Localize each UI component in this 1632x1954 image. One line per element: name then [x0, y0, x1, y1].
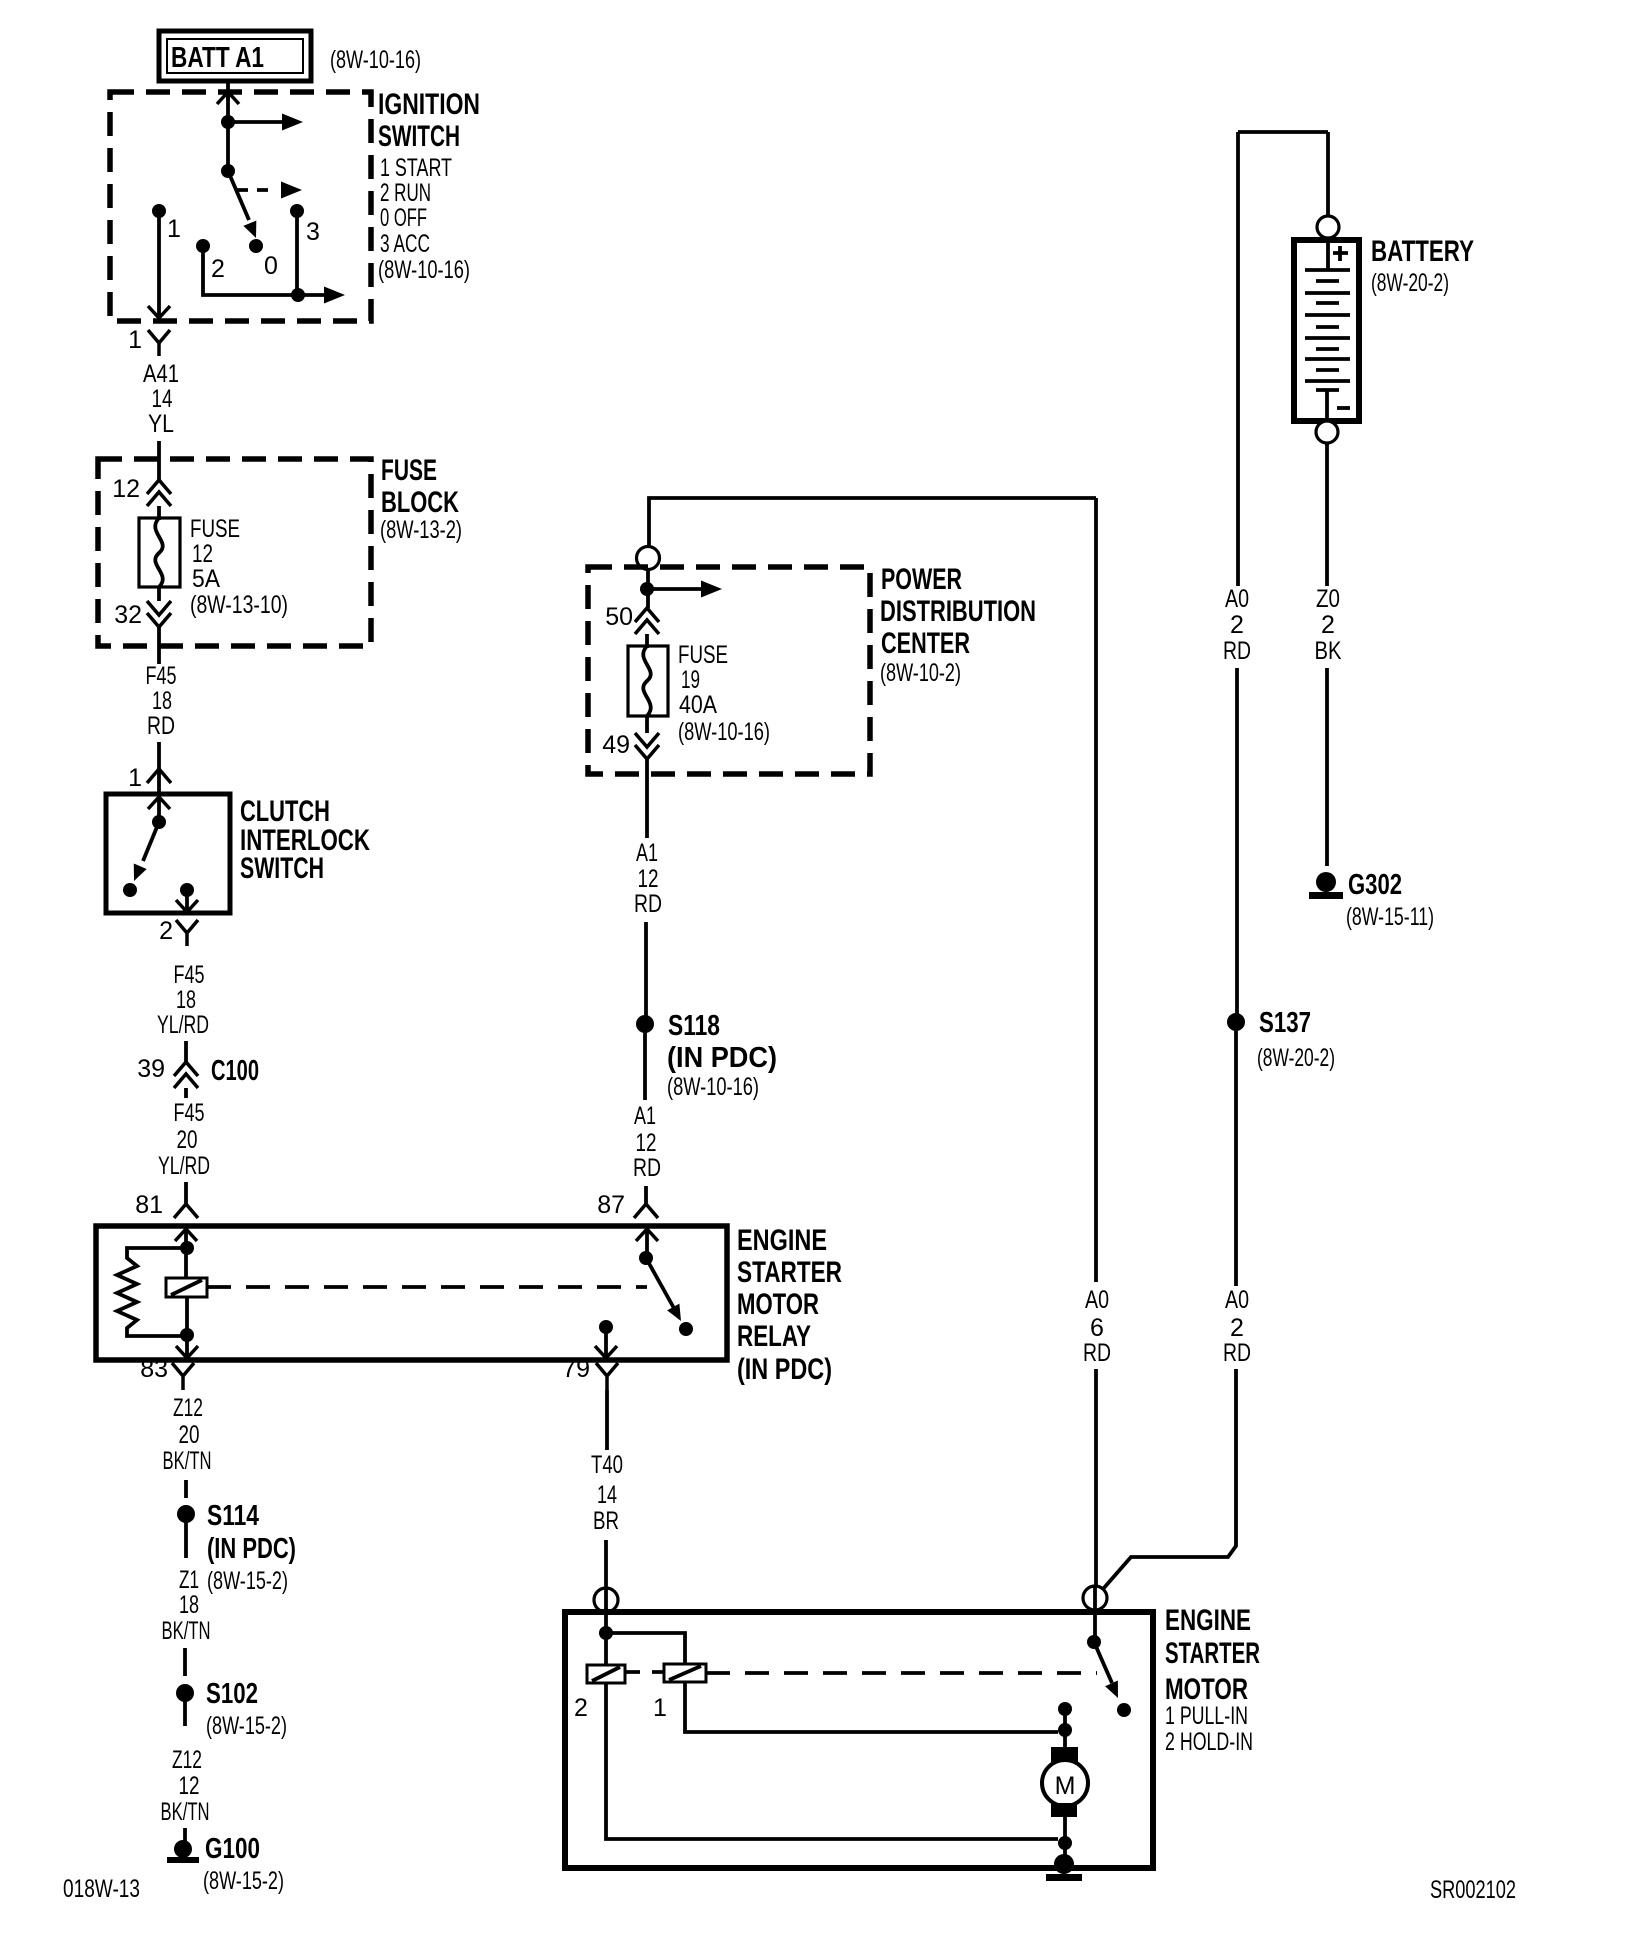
- svg-text:T40: T40: [591, 1451, 623, 1479]
- ignition switch box: [110, 92, 371, 321]
- label S114 (IN PDC): [207, 1500, 296, 1565]
- svg-text:RD: RD: [1083, 1339, 1111, 1367]
- svg-text:018W-13: 018W-13: [63, 1875, 140, 1903]
- relay pin 81 feed arrowhead: [175, 1229, 197, 1241]
- wire below S137: [1234, 1031, 1238, 1286]
- clutch switch wiper arrow: [128, 822, 159, 884]
- wire label A0 2 RD lower: [1223, 1286, 1251, 1367]
- motor brush bottom: [1051, 1803, 1077, 1817]
- wire from BATT A1 to ignition switch: [226, 81, 230, 100]
- svg-text:IGNITION: IGNITION: [378, 88, 480, 121]
- svg-text:20: 20: [177, 1126, 198, 1154]
- wire below S114: [184, 1522, 188, 1558]
- svg-text:S102: S102: [206, 1678, 258, 1710]
- ground G302: [1309, 872, 1343, 899]
- svg-text:(IN PDC): (IN PDC): [207, 1533, 296, 1565]
- svg-text:(8W-15-2): (8W-15-2): [203, 1867, 284, 1895]
- wire below fuse 19: [645, 716, 649, 733]
- arrow accessory feed out: [298, 287, 345, 304]
- connector chevrons cavity 49: [635, 733, 659, 759]
- svg-text:20: 20: [179, 1421, 200, 1449]
- relay normally-open contact: [679, 1322, 693, 1336]
- svg-text:(8W-10-16): (8W-10-16): [330, 46, 421, 74]
- connector ring PDC battery stud: [637, 547, 660, 570]
- terminal 0 contact: [249, 239, 263, 253]
- wire F45 to clutch interlock switch: [157, 742, 161, 794]
- svg-text:FUSE: FUSE: [190, 515, 240, 543]
- svg-text:2 HOLD-IN: 2 HOLD-IN: [1165, 1728, 1253, 1756]
- connector ring starter battery terminal: [1083, 1586, 1107, 1610]
- wire terminal 1 down: [157, 211, 161, 318]
- node relay coil bottom: [180, 1328, 194, 1342]
- ground starter motor case: [1046, 1854, 1082, 1881]
- svg-text:0: 0: [264, 252, 278, 280]
- svg-text:(8W-13-10): (8W-13-10): [190, 591, 288, 619]
- svg-text:BATTERY: BATTERY: [1371, 235, 1474, 268]
- svg-text:SR002102: SR002102: [1430, 1876, 1516, 1904]
- engine starter motor box: [565, 1612, 1153, 1868]
- connector chevron pin 1: [147, 769, 171, 783]
- wire motor to ground: [1063, 1817, 1067, 1860]
- wire label Z1 18 BK/TN: [162, 1566, 211, 1645]
- svg-text:2: 2: [1230, 1314, 1244, 1342]
- svg-text:(8W-13-2): (8W-13-2): [380, 516, 462, 544]
- label ENGINE STARTER MOTOR 1 PULL-IN 2 HOLD-IN: [1165, 1604, 1260, 1756]
- junction node terminal 2/3 rail: [291, 288, 305, 302]
- motor input node lower: [1058, 1723, 1072, 1737]
- wire clutch output down: [185, 890, 189, 912]
- svg-text:SWITCH: SWITCH: [240, 852, 324, 885]
- ground G100: [167, 1840, 199, 1863]
- node PDC feed: [640, 582, 654, 596]
- wire label A1 12 RD lower: [633, 1102, 661, 1182]
- svg-text:S137: S137: [1259, 1007, 1311, 1039]
- svg-text:(8W-10-16): (8W-10-16): [378, 256, 470, 284]
- wire label Z12 12 BK/TN: [161, 1746, 210, 1826]
- svg-text:1 PULL-IN: 1 PULL-IN: [1165, 1702, 1248, 1730]
- svg-text:S114: S114: [207, 1500, 259, 1532]
- wire label Z0 2 BK: [1315, 585, 1342, 665]
- resistor relay shunt: [117, 1248, 187, 1336]
- svg-text:S118: S118: [668, 1010, 720, 1042]
- label S118 (IN PDC) (8W-10-16): [667, 1010, 777, 1101]
- fuse 19 element: [628, 646, 668, 716]
- fuse value label FUSE 12 5A (8W-13-10): [190, 515, 288, 619]
- svg-text:83: 83: [140, 1355, 168, 1383]
- svg-text:BK/TN: BK/TN: [161, 1798, 210, 1826]
- svg-text:3 ACC: 3 ACC: [380, 230, 430, 258]
- label BATTERY (8W-20-2): [1371, 235, 1474, 297]
- fuse block box: [98, 459, 371, 646]
- svg-text:FUSE: FUSE: [678, 641, 728, 669]
- connector ring starter solenoid terminal: [594, 1588, 618, 1612]
- svg-text:RD: RD: [147, 712, 175, 740]
- switch wiper arrow to position 0: [228, 171, 262, 241]
- svg-text:C100: C100: [211, 1055, 259, 1087]
- svg-text:(8W-20-2): (8W-20-2): [1257, 1044, 1335, 1072]
- ignition switch feed arrowhead: [217, 92, 239, 104]
- connector chevron pin 81: [174, 1204, 198, 1218]
- wire battery positive top link: [1238, 130, 1328, 134]
- wire to fuse 12: [157, 506, 161, 520]
- svg-text:(IN PDC): (IN PDC): [737, 1353, 832, 1386]
- wire to splice S102: [183, 1648, 187, 1676]
- wire T40 to starter solenoid: [604, 1540, 608, 1590]
- wire battery negative down: [1325, 443, 1329, 586]
- wire relay switch common: [645, 1229, 649, 1258]
- connector fork pin 79: [596, 1363, 618, 1390]
- wire A1 out of PDC: [645, 759, 649, 838]
- battery: [1294, 240, 1359, 421]
- svg-text:1: 1: [653, 1694, 667, 1722]
- svg-text:STARTER: STARTER: [737, 1256, 842, 1289]
- connector ring battery positive: [1317, 216, 1339, 238]
- motor M: [1042, 1760, 1088, 1806]
- motor input terminal node: [1058, 1702, 1072, 1716]
- wire terminal 3 down: [295, 211, 299, 295]
- svg-text:2: 2: [159, 917, 173, 945]
- wire branch to pull-in coil: [606, 1633, 685, 1664]
- wire to relay pin 87: [644, 1186, 648, 1204]
- label FUSE BLOCK: [380, 454, 462, 544]
- svg-text:YL/RD: YL/RD: [157, 1011, 209, 1039]
- svg-text:18: 18: [176, 986, 196, 1014]
- svg-text:(8W-15-11): (8W-15-11): [1346, 903, 1434, 931]
- battery feed box BATT A1: [159, 31, 311, 81]
- svg-text:(8W-20-2): (8W-20-2): [1371, 269, 1449, 297]
- svg-text:DISTRIBUTION: DISTRIBUTION: [880, 595, 1036, 628]
- node motor ground: [1058, 1836, 1072, 1850]
- wire relay pin 79 to T40: [605, 1390, 609, 1450]
- svg-text:2: 2: [211, 255, 225, 283]
- svg-text:(8W-10-16): (8W-10-16): [678, 718, 770, 746]
- wire label A0 2 RD upper: [1223, 585, 1251, 665]
- svg-text:2: 2: [574, 1694, 588, 1722]
- wire PDC internal feed: [646, 569, 650, 608]
- svg-text:81: 81: [135, 1191, 163, 1219]
- svg-text:(8W-10-2): (8W-10-2): [880, 659, 961, 687]
- svg-text:BLOCK: BLOCK: [381, 486, 459, 519]
- svg-text:50: 50: [605, 603, 633, 631]
- svg-text:19: 19: [681, 666, 700, 694]
- wire below S118: [643, 1032, 647, 1100]
- relay switch blade arrow: [646, 1258, 687, 1324]
- wire PDC feed from starter motor battery terminal: [649, 498, 1096, 546]
- label CLUTCH INTERLOCK SWITCH: [240, 795, 370, 885]
- svg-text:2: 2: [1321, 611, 1335, 639]
- svg-text:YL: YL: [148, 410, 174, 438]
- svg-text:18: 18: [179, 1591, 199, 1619]
- wire battery positive down left: [1236, 132, 1240, 586]
- svg-text:3: 3: [306, 218, 320, 246]
- connector chevrons cavity 32: [147, 601, 171, 627]
- svg-text:79: 79: [562, 1355, 590, 1383]
- label S137 (8W-20-2): [1257, 1007, 1335, 1072]
- svg-text:(8W-10-16): (8W-10-16): [667, 1073, 759, 1101]
- solenoid coil 1 pull-in: [664, 1664, 706, 1682]
- connector chevrons cavity 12: [147, 480, 171, 506]
- svg-text:CENTER: CENTER: [881, 627, 970, 660]
- arrowhead terminal 1 output: [148, 306, 170, 318]
- relay output contact: [599, 1320, 613, 1334]
- svg-text:12: 12: [179, 1772, 200, 1800]
- connector chevrons cavity 50: [635, 608, 659, 634]
- svg-text:RELAY: RELAY: [737, 1320, 811, 1353]
- svg-text:Z12: Z12: [172, 1746, 202, 1774]
- svg-text:Z12: Z12: [173, 1394, 203, 1422]
- svg-text:BK/TN: BK/TN: [163, 1447, 212, 1475]
- solenoid switch contact: [1117, 1703, 1131, 1717]
- svg-text:1: 1: [167, 215, 181, 243]
- svg-text:(8W-15-2): (8W-15-2): [207, 1567, 288, 1595]
- splice S137: [1227, 1013, 1245, 1031]
- node clutch wiper pivot: [152, 815, 166, 829]
- svg-text:A41: A41: [143, 360, 179, 388]
- splice S118: [636, 1015, 654, 1033]
- terminal 3 contact: [290, 204, 304, 218]
- svg-text:BR: BR: [593, 1507, 619, 1535]
- wire below S102: [183, 1701, 187, 1726]
- wire relay output: [604, 1327, 608, 1358]
- dashed mechanical link relay: [207, 1285, 647, 1289]
- svg-text:14: 14: [597, 1481, 617, 1509]
- svg-text:40A: 40A: [679, 691, 717, 719]
- wire motor input: [1063, 1709, 1067, 1748]
- svg-text:12: 12: [636, 1129, 657, 1157]
- arrow to other circuits (upper): [228, 114, 303, 131]
- svg-text:12: 12: [192, 540, 213, 568]
- connector chevron pin 87: [634, 1204, 658, 1218]
- svg-text:49: 49: [602, 731, 630, 759]
- svg-text:1: 1: [128, 764, 142, 792]
- svg-text:A0: A0: [1225, 1286, 1249, 1314]
- wire hold-in coil feed: [604, 1633, 608, 1665]
- node ignition feed lower (wiper pivot): [221, 164, 235, 178]
- connector fork pin 83: [172, 1363, 194, 1390]
- relay pin 87 feed arrowhead: [636, 1229, 658, 1241]
- arrowhead relay pin 83: [176, 1346, 198, 1358]
- wire battery positive post: [1326, 132, 1330, 217]
- svg-text:87: 87: [597, 1191, 625, 1219]
- wire label F45 18 RD: [146, 662, 177, 740]
- label ENGINE STARTER MOTOR RELAY (IN PDC): [737, 1224, 842, 1386]
- svg-text:BATT A1: BATT A1: [171, 42, 264, 74]
- svg-text:G100: G100: [205, 1833, 260, 1865]
- wire A0 to splice S137: [1235, 668, 1239, 1014]
- wire label A1 12 RD: [634, 839, 662, 918]
- svg-text:MOTOR: MOTOR: [737, 1288, 819, 1321]
- wire coil 1 to motor terminal: [685, 1682, 1058, 1732]
- svg-text:32: 32: [114, 601, 142, 629]
- wire A1 to splice S118: [644, 922, 648, 1016]
- node relay switch pivot: [639, 1251, 653, 1265]
- svg-text:FUSE: FUSE: [381, 454, 437, 487]
- wire label F45 20 YL/RD: [158, 1099, 210, 1180]
- svg-text:39: 39: [137, 1055, 165, 1083]
- wire to splice S114: [184, 1480, 188, 1498]
- svg-text:0 OFF: 0 OFF: [380, 204, 427, 232]
- label G302 (8W-15-11): [1346, 869, 1434, 931]
- svg-text:G302: G302: [1348, 869, 1402, 901]
- motor brush top: [1051, 1747, 1078, 1762]
- wire terminal 2 to terminal 3 rail: [203, 246, 297, 295]
- clutch interlock switch box: [106, 794, 230, 913]
- svg-text:SWITCH: SWITCH: [378, 120, 460, 153]
- wire label Z12 20 BK/TN: [163, 1394, 212, 1475]
- svg-text:12: 12: [112, 475, 140, 503]
- terminal 2 contact: [196, 239, 210, 253]
- wire ignition feed: [226, 92, 230, 171]
- svg-text:5A: 5A: [192, 565, 220, 593]
- wire coil 2 to ground bus: [606, 1683, 1058, 1839]
- label IGNITION SWITCH: [378, 88, 480, 284]
- dashed mechanical link solenoid: [706, 1671, 1097, 1675]
- svg-text:M: M: [1055, 1772, 1076, 1800]
- arrow PDC bus out: [647, 581, 722, 598]
- splice S114: [177, 1505, 195, 1523]
- svg-text:(8W-15-2): (8W-15-2): [206, 1712, 287, 1740]
- fuse 12 element: [139, 518, 180, 587]
- arrowhead relay pin 79: [595, 1346, 617, 1358]
- solenoid switch blade arrow: [1094, 1642, 1124, 1701]
- solenoid coil 2 hold-in: [587, 1665, 625, 1683]
- svg-text:A1: A1: [636, 839, 658, 867]
- wire to connector C100: [184, 1041, 188, 1062]
- svg-text:F45: F45: [174, 961, 205, 989]
- connector C100 chevrons: [174, 1062, 198, 1088]
- svg-text:ENGINE: ENGINE: [1165, 1604, 1251, 1637]
- connector fork pin 1: [148, 330, 170, 356]
- svg-text:14: 14: [152, 385, 173, 413]
- svg-text:2 RUN: 2 RUN: [380, 179, 431, 207]
- wire label A41 14 YL: [143, 360, 179, 438]
- wire relay coil bottom: [185, 1297, 189, 1358]
- terminal 1 contact: [152, 204, 166, 218]
- connector fork pin 2: [176, 920, 198, 946]
- dashed mechanical link coil2 to coil1: [625, 1670, 664, 1674]
- wire label A0 6 RD: [1083, 1286, 1111, 1367]
- svg-text:RD: RD: [1223, 637, 1251, 665]
- connector ring battery negative: [1316, 421, 1338, 443]
- svg-text:STARTER: STARTER: [1165, 1637, 1260, 1670]
- clutch contact output: [180, 883, 194, 897]
- svg-text:POWER: POWER: [881, 563, 962, 596]
- wire label T40 14 BR: [591, 1451, 623, 1535]
- svg-text:BK: BK: [1315, 637, 1342, 665]
- svg-text:YL/RD: YL/RD: [158, 1152, 210, 1180]
- wire battery feed down to starter motor: [1094, 498, 1098, 1588]
- svg-text:Z0: Z0: [1316, 585, 1340, 613]
- wire A0 to starter battery terminal: [1103, 1369, 1236, 1589]
- wire solenoid feed into box: [604, 1589, 608, 1633]
- splice S102: [176, 1684, 194, 1702]
- svg-text:RD: RD: [634, 890, 662, 918]
- node solenoid feed: [599, 1626, 613, 1640]
- svg-text:RD: RD: [1223, 1339, 1251, 1367]
- svg-text:1: 1: [128, 326, 142, 354]
- svg-text:Z1: Z1: [179, 1566, 199, 1594]
- wire to ground G100: [183, 1828, 187, 1841]
- arrowhead clutch output: [176, 900, 198, 912]
- clutch contact open: [123, 883, 137, 897]
- svg-text:A1: A1: [634, 1102, 656, 1130]
- engine starter motor relay box: [96, 1226, 727, 1360]
- svg-text:(IN PDC): (IN PDC): [667, 1042, 777, 1074]
- label POWER DISTRIBUTION CENTER: [880, 563, 1036, 687]
- power distribution center box: [588, 567, 870, 774]
- svg-text:BK/TN: BK/TN: [162, 1617, 211, 1645]
- node ignition feed upper: [221, 115, 235, 129]
- svg-text:12: 12: [638, 865, 659, 893]
- svg-text:RD: RD: [633, 1154, 661, 1182]
- node solenoid switch pivot: [1087, 1635, 1101, 1649]
- relay coil: [166, 1278, 207, 1297]
- svg-text:F45: F45: [146, 662, 177, 690]
- wire clutch feed: [157, 797, 161, 822]
- fuse value label FUSE 19 40A (8W-10-16): [678, 641, 770, 746]
- svg-text:A0: A0: [1085, 1286, 1109, 1314]
- node relay coil top: [180, 1241, 194, 1255]
- svg-text:F45: F45: [174, 1099, 205, 1127]
- wire Z0 to ground G302: [1325, 668, 1329, 866]
- clutch switch feed arrowhead: [148, 797, 170, 809]
- wire A41 into fuse block: [157, 441, 161, 480]
- svg-text:18: 18: [152, 687, 172, 715]
- wire to fuse 19: [645, 634, 649, 648]
- wire relay coil top: [184, 1229, 188, 1278]
- svg-text:1 START: 1 START: [380, 154, 452, 182]
- svg-text:2: 2: [1230, 611, 1244, 639]
- svg-text:6: 6: [1090, 1314, 1104, 1342]
- wire below fuse 12: [157, 587, 161, 601]
- svg-text:A0: A0: [1225, 585, 1249, 613]
- svg-text:ENGINE: ENGINE: [737, 1224, 827, 1257]
- wire label F45 18 YL/RD: [157, 961, 209, 1039]
- wire chevron 1088 to 1121 area and to relay: [184, 1088, 188, 1204]
- dashed run-position arrow: [237, 182, 302, 199]
- wire solenoid switch feed: [1093, 1587, 1097, 1642]
- wire F45 out of fuse block: [157, 627, 161, 664]
